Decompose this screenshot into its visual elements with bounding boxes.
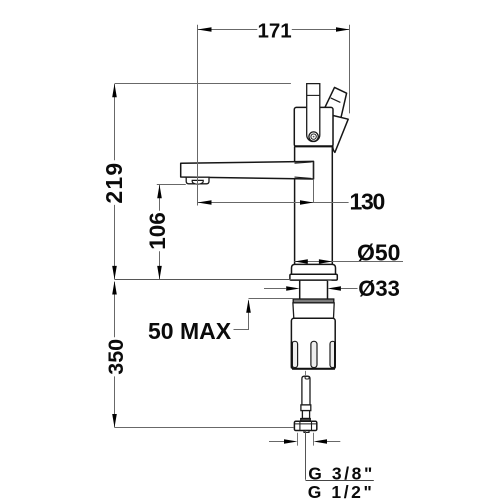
lever handle vertical <box>307 84 320 142</box>
extension line aerator center <box>197 25 199 206</box>
pivot screw <box>309 132 318 141</box>
svg-text:G 3/8": G 3/8" <box>308 463 375 483</box>
dimension D50 <box>294 240 403 266</box>
svg-text:106: 106 <box>145 212 170 250</box>
svg-text:Ø50: Ø50 <box>357 240 400 266</box>
svg-text:350: 350 <box>104 339 128 375</box>
mounting nut upper <box>293 303 334 318</box>
dimension D33 <box>264 276 400 301</box>
dimension 171 <box>198 20 350 43</box>
dimension 106 <box>145 185 186 280</box>
dimension 219 <box>101 84 291 280</box>
rod band <box>301 419 311 422</box>
svg-text:130: 130 <box>350 189 385 215</box>
svg-text:171: 171 <box>257 20 291 43</box>
svg-text:G 1/2": G 1/2" <box>308 482 375 500</box>
threaded stud rod <box>302 376 310 405</box>
dimension G thread <box>269 433 340 446</box>
hex nut tail <box>304 431 309 433</box>
aerator <box>186 177 209 184</box>
mounting nut body <box>291 318 335 369</box>
nut slot left <box>292 341 297 367</box>
gasket <box>293 299 334 303</box>
centre extension line <box>313 161 315 179</box>
dimension 130 <box>198 189 385 215</box>
spout <box>181 161 314 179</box>
centre line stud <box>305 371 307 376</box>
dimension 50 MAX <box>148 299 293 345</box>
threaded shank <box>300 280 328 299</box>
rod tip <box>305 376 309 379</box>
nut slot middle <box>311 341 317 367</box>
nut slot right <box>330 341 335 367</box>
lever joint line <box>307 94 320 96</box>
spout chamfer lines <box>295 162 312 179</box>
aerator outlet <box>192 180 203 184</box>
extension line lever tip <box>349 25 351 114</box>
faucet body column <box>295 147 333 265</box>
svg-text:50 MAX: 50 MAX <box>148 318 232 344</box>
cartridge housing <box>294 107 333 146</box>
dimension 350 <box>104 281 294 428</box>
hex nut <box>294 421 316 430</box>
mounting deck line <box>115 279 292 281</box>
lever handle shown tilted (open position) <box>325 87 348 152</box>
svg-text:Ø33: Ø33 <box>358 276 400 301</box>
svg-text:219: 219 <box>101 162 127 204</box>
nut bottom edge <box>292 368 335 370</box>
rod collar <box>301 405 311 411</box>
base flange top <box>292 264 336 274</box>
G label fraction line <box>306 480 374 482</box>
rod neck <box>302 411 309 419</box>
base flange plate <box>290 274 337 280</box>
nut heavy edges <box>291 342 293 369</box>
